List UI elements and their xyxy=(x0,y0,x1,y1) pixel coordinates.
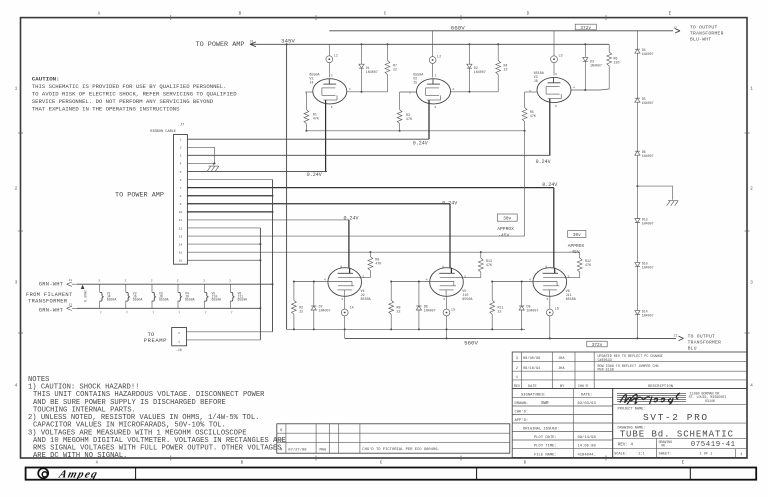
svg-text:11: 11 xyxy=(179,219,183,222)
diode D6 xyxy=(635,151,640,155)
svg-text:63146: 63146 xyxy=(705,399,715,403)
svg-text:1N4007: 1N4007 xyxy=(642,266,654,270)
svg-text:6550A: 6550A xyxy=(238,298,248,302)
svg-text:22: 22 xyxy=(393,67,397,71)
svg-text:J3: J3 xyxy=(250,39,254,43)
svg-text:9: 9 xyxy=(180,203,182,206)
tube V4 6550A xyxy=(328,268,362,297)
grid bus upper xyxy=(306,130,524,132)
choke L6 xyxy=(549,297,551,310)
svg-text:FROM FILAMENT: FROM FILAMENT xyxy=(26,292,73,298)
svg-text:4: 4 xyxy=(529,279,531,282)
svg-text:1N4007: 1N4007 xyxy=(590,64,602,68)
svg-text:08/18/94: 08/18/94 xyxy=(523,366,540,371)
svg-text:TO AVOID RISK OF ELECTRIC SHOC: TO AVOID RISK OF ELECTRIC SHOCK, REFER S… xyxy=(32,90,237,97)
svg-text:9: 9 xyxy=(545,265,547,268)
wire V2 cathode xyxy=(428,100,430,139)
wire row7 to V6 plate xyxy=(553,188,555,268)
arrow J1 to output transformer xyxy=(679,336,684,340)
svg-text:2: 2 xyxy=(229,280,231,283)
resistor R8 xyxy=(390,282,392,301)
svg-text:5: 5 xyxy=(180,171,182,174)
svg-text:22: 22 xyxy=(299,310,303,314)
title block revision table xyxy=(512,352,747,389)
svg-text:1N4007: 1N4007 xyxy=(319,309,331,313)
svg-text:372v: 372v xyxy=(592,343,603,348)
wire row13 to grid bus xyxy=(524,131,526,236)
svg-text:J4: J4 xyxy=(309,81,313,85)
svg-text:660V: 660V xyxy=(451,24,465,31)
svg-text:08/30/99: 08/30/99 xyxy=(523,356,540,361)
wire V2 screen xyxy=(450,91,498,93)
svg-text:47K: 47K xyxy=(585,263,591,267)
svg-text:J2: J2 xyxy=(69,303,73,306)
svg-text:2: 2 xyxy=(177,280,179,283)
bottom logo strip xyxy=(26,468,757,480)
svg-text:07/27/98: 07/27/98 xyxy=(288,447,307,452)
svg-text:10: 10 xyxy=(179,211,183,214)
resistor R9 xyxy=(369,252,371,256)
svg-text:6550A: 6550A xyxy=(212,298,222,302)
svg-text:1N4007: 1N4007 xyxy=(642,52,654,56)
svg-text:BLU: BLU xyxy=(688,346,697,352)
tube V2 6550A xyxy=(417,79,451,104)
tube V6 6550A xyxy=(533,268,567,297)
svg-text:6: 6 xyxy=(180,179,182,182)
diode D8 xyxy=(418,282,420,307)
tube V3 6550A xyxy=(537,77,571,102)
svg-text:08/14/98: 08/14/98 xyxy=(578,435,597,440)
wire row9 to V5 plate xyxy=(449,204,451,268)
svg-text:APPROX: APPROX xyxy=(497,226,514,232)
wire row 3 xyxy=(187,154,549,156)
wire row 16 xyxy=(187,259,260,261)
svg-text:THAT EXPLAINED IN THE OPERATIN: THAT EXPLAINED IN THE OPERATING INSTRUCT… xyxy=(32,105,180,112)
choke L3 xyxy=(553,31,555,56)
svg-text:SCALE:: SCALE: xyxy=(614,452,627,456)
diode D7 xyxy=(313,282,315,307)
svg-text:7: 7 xyxy=(231,312,233,315)
svg-text:6: 6 xyxy=(435,106,437,109)
wire V3 screen xyxy=(571,89,600,91)
wire V4 grid xyxy=(294,281,328,283)
svg-text:7: 7 xyxy=(100,312,102,315)
svg-text:SIGNATURES:: SIGNATURES: xyxy=(521,394,546,398)
wire row 12 xyxy=(187,227,260,229)
wire 345V rail / TO POWER AMP xyxy=(262,43,609,45)
svg-text:7: 7 xyxy=(205,312,207,315)
svg-text:J1: J1 xyxy=(674,333,678,337)
tube V1 6550A xyxy=(313,79,347,104)
svg-text:APPROX: APPROX xyxy=(568,243,585,249)
svg-text:345V: 345V xyxy=(281,38,295,45)
svg-text:L2: L2 xyxy=(437,56,441,60)
svg-text:3: 3 xyxy=(180,155,182,158)
svg-text:.J7: .J7 xyxy=(178,124,184,128)
svg-text:3: 3 xyxy=(435,75,437,78)
svg-text:0.24V: 0.24V xyxy=(307,172,322,178)
svg-text:1N4007: 1N4007 xyxy=(642,314,654,318)
svg-text:APP'D:: APP'D: xyxy=(515,418,529,423)
resistor R1 xyxy=(306,91,313,93)
svg-text:PREAMP: PREAMP xyxy=(144,337,167,344)
choke L1 xyxy=(328,44,330,56)
svg-text:8: 8 xyxy=(340,265,342,268)
svg-text:TRANSFORMER: TRANSFORMER xyxy=(690,30,724,36)
svg-text:3: 3 xyxy=(555,73,557,76)
resistor R5 xyxy=(525,91,538,93)
wire row 4 xyxy=(187,162,214,164)
wire row 11 xyxy=(187,219,349,221)
lower revision table xyxy=(277,424,510,453)
wire vert rows 6/8/10 to preamp xyxy=(272,180,274,332)
resistor R12 xyxy=(579,252,581,258)
diode D3 xyxy=(584,44,586,57)
heater V1 xyxy=(99,284,101,292)
svg-text:-45V: -45V xyxy=(498,233,509,239)
wire 345V drop xyxy=(286,44,288,329)
wire row 6 xyxy=(187,179,272,181)
diode D4 xyxy=(635,49,640,53)
wire V5 grid xyxy=(391,281,430,283)
wire V6 grid xyxy=(492,281,533,283)
wire 660V rail xyxy=(329,30,673,32)
svg-text:CAUTION:: CAUTION: xyxy=(32,75,60,82)
svg-text:TO POWER AMP: TO POWER AMP xyxy=(115,191,164,199)
svg-text:22: 22 xyxy=(504,67,508,71)
svg-text:PLOT TIME:: PLOT TIME: xyxy=(534,445,557,449)
wire filament bottom rail xyxy=(77,307,260,309)
resistor R3 xyxy=(400,91,417,93)
svg-text:THIS SCHEMATIC IS PROVIDED FOR: THIS SCHEMATIC IS PROVIDED FOR USE BY QU… xyxy=(32,83,227,90)
svg-text:30v: 30v xyxy=(573,233,581,238)
diode D10 xyxy=(635,263,640,267)
svg-text:0.24V: 0.24V xyxy=(344,216,359,222)
svg-text:1N4007: 1N4007 xyxy=(424,309,436,313)
svg-text:2: 2 xyxy=(125,280,127,283)
resistor R11 xyxy=(491,282,493,301)
svg-text:2: 2 xyxy=(180,147,182,150)
svg-text:J1: J1 xyxy=(69,279,73,282)
wire row 1 xyxy=(187,138,429,140)
svg-text:6550A: 6550A xyxy=(133,298,143,302)
svg-text:3: 3 xyxy=(341,298,343,301)
svg-text:DRAWN:: DRAWN: xyxy=(515,402,529,406)
Ampeg logo mark xyxy=(38,468,48,478)
svg-text:1N4007: 1N4007 xyxy=(366,70,378,74)
svg-text:C#E0533: C#E0533 xyxy=(598,359,612,363)
svg-text:4: 4 xyxy=(573,87,575,90)
svg-text:220: 220 xyxy=(614,61,620,65)
wire row 9 xyxy=(187,203,450,205)
heater V3 xyxy=(151,284,153,292)
svg-text:47K: 47K xyxy=(486,263,492,267)
svg-text:6550A: 6550A xyxy=(107,298,117,302)
svg-text:3: 3 xyxy=(546,298,548,301)
wire row 2 xyxy=(187,146,214,148)
svg-text:SWR: SWR xyxy=(541,402,549,406)
svg-text:PLOT DATE:: PLOT DATE: xyxy=(534,436,557,440)
svg-text:PER E158: PER E158 xyxy=(598,369,614,373)
svg-text:3: 3 xyxy=(516,357,518,361)
svg-text:8: 8 xyxy=(180,195,182,198)
svg-text:TRANSFORMER: TRANSFORMER xyxy=(28,298,68,304)
svg-text:7: 7 xyxy=(126,312,128,315)
svg-text:SERVICE PERSONNEL. DO NOT PER: SERVICE PERSONNEL. DO NOT PERFORM ANY SE… xyxy=(32,98,214,105)
resistor R6 xyxy=(608,44,610,52)
svg-text:NO.: NO. xyxy=(662,444,668,448)
svg-text:30v: 30v xyxy=(503,217,511,222)
wire rows 2-4 gnd loop xyxy=(214,147,216,163)
svg-text:JHA: JHA xyxy=(558,367,565,371)
svg-text:SHEET:: SHEET: xyxy=(659,452,672,456)
svg-text:14:05:00: 14:05:00 xyxy=(578,445,597,449)
svg-text:J5: J5 xyxy=(413,81,417,85)
svg-text:0.24V: 0.24V xyxy=(536,159,551,165)
svg-text:L3: L3 xyxy=(559,55,563,59)
node 30v approx -45V box 1 xyxy=(497,214,517,221)
choke L2 xyxy=(432,31,434,57)
svg-text:2: 2 xyxy=(516,367,518,371)
svg-text:4194044_: 4194044_ xyxy=(578,453,597,457)
heater V6 xyxy=(230,284,232,292)
svg-text:1: 1 xyxy=(180,139,182,142)
svg-text:TO OUTPUT: TO OUTPUT xyxy=(690,24,718,30)
svg-text:GRN-WHT: GRN-WHT xyxy=(39,308,64,314)
svg-text:0.24V: 0.24V xyxy=(442,200,457,206)
svg-text:2: 2 xyxy=(178,332,180,335)
svg-text:13: 13 xyxy=(179,235,183,238)
ground left xyxy=(207,166,219,171)
svg-text:1: 1 xyxy=(178,340,180,343)
svg-text:7: 7 xyxy=(180,187,182,190)
svg-text:1N4007: 1N4007 xyxy=(642,222,654,226)
svg-text:1N4007: 1N4007 xyxy=(642,154,654,158)
svg-text:TO OUTPUT: TO OUTPUT xyxy=(688,334,716,340)
svg-text:-45V: -45V xyxy=(569,249,580,255)
wire row 7 xyxy=(187,187,553,189)
resistor R7 xyxy=(387,44,389,60)
svg-text:4: 4 xyxy=(740,453,742,457)
svg-text:BLU-WHT: BLU-WHT xyxy=(690,36,711,42)
svg-text:L4: L4 xyxy=(350,307,354,311)
svg-text:4: 4 xyxy=(349,88,351,91)
polarity arrow xyxy=(81,285,85,289)
svg-text:TO POWER AMP: TO POWER AMP xyxy=(196,41,245,49)
wire row 14 xyxy=(187,243,260,245)
svg-text:3: 3 xyxy=(443,298,445,301)
Ampeg logo script xyxy=(57,469,100,481)
svg-text:CHG'D TO PICTORIAL PER ECO 980: CHG'D TO PICTORIAL PER ECO 980406. xyxy=(362,447,439,452)
svg-text:CHK'D:: CHK'D: xyxy=(515,410,529,415)
title block company/name area xyxy=(613,389,747,458)
svg-text:1N4007: 1N4007 xyxy=(642,101,654,105)
wire row 10 xyxy=(187,211,272,213)
svg-text:15: 15 xyxy=(179,251,183,254)
wire row11 to V4 plate xyxy=(348,220,350,268)
svg-text:TRANSFORMER: TRANSFORMER xyxy=(688,340,722,346)
title block signatures xyxy=(512,389,613,458)
svg-text:12: 12 xyxy=(179,227,183,230)
svg-text:2: 2 xyxy=(203,280,205,283)
wire V1 screen xyxy=(347,91,388,93)
svg-text:4: 4 xyxy=(180,163,182,166)
svg-text:L6: L6 xyxy=(555,308,559,312)
svg-text:J6: J6 xyxy=(534,80,538,84)
diode D2 xyxy=(468,44,470,64)
diode D1 xyxy=(361,44,363,64)
svg-text:DATE:: DATE: xyxy=(581,394,592,398)
svg-text:2: 2 xyxy=(99,280,101,283)
choke L5 xyxy=(446,297,448,310)
svg-text:GRN-WHT: GRN-WHT xyxy=(39,282,64,288)
svg-text:REV: 4: REV: 4 xyxy=(618,443,634,447)
heater V2 xyxy=(125,284,127,292)
svg-text:6550A: 6550A xyxy=(185,298,195,302)
node 372v box bottom xyxy=(587,341,607,347)
svg-text:ORIGINAL ISSUED:: ORIGINAL ISSUED: xyxy=(523,428,559,432)
wire gnd branch xyxy=(637,185,672,187)
choke L4 xyxy=(344,297,346,310)
svg-text:075419-41: 075419-41 xyxy=(691,441,736,449)
svg-text:FILE NAME:: FILE NAME: xyxy=(534,453,557,457)
svg-text:5: 5 xyxy=(529,90,531,93)
svg-text:6550A: 6550A xyxy=(566,298,577,302)
svg-text:5: 5 xyxy=(568,275,570,278)
resistor R13 xyxy=(480,252,482,258)
svg-text:1:1: 1:1 xyxy=(638,452,644,456)
wire row 5 xyxy=(187,170,327,172)
wire row 15 xyxy=(187,251,579,253)
svg-text:3: 3 xyxy=(331,75,333,78)
svg-text:7: 7 xyxy=(152,312,154,315)
svg-text:0.24V: 0.24V xyxy=(413,140,428,146)
svg-text:5: 5 xyxy=(363,275,365,278)
wire V1 cathode xyxy=(325,100,327,172)
svg-text:7: 7 xyxy=(178,312,180,315)
svg-text:SVT-2 PRO: SVT-2 PRO xyxy=(643,412,709,423)
diode D9 xyxy=(521,282,523,307)
svg-text:JHA: JHA xyxy=(558,357,565,361)
diode D13 xyxy=(635,219,640,223)
tube V5 6550A xyxy=(430,268,464,297)
svg-text:1: 1 xyxy=(516,376,518,380)
wire vert rows 12/14/16 to preamp xyxy=(259,228,261,340)
wire row 13 xyxy=(187,235,524,237)
resistor R2 xyxy=(293,282,295,301)
heater V4 xyxy=(177,284,179,292)
wire row 8 xyxy=(187,195,272,197)
resistor R4 xyxy=(497,44,499,60)
svg-text:5: 5 xyxy=(464,275,466,278)
svg-text:22: 22 xyxy=(498,310,502,314)
wire column xyxy=(636,31,638,49)
ground right xyxy=(667,201,679,206)
svg-text:22: 22 xyxy=(397,310,401,314)
bias bus lower xyxy=(287,328,525,330)
svg-text:16: 16 xyxy=(179,260,183,263)
svg-text:03/03/93: 03/03/93 xyxy=(578,401,597,406)
svg-text:6550A: 6550A xyxy=(159,298,169,302)
svg-text:.J8: .J8 xyxy=(176,349,182,353)
svg-text:1N4007: 1N4007 xyxy=(527,309,539,313)
svg-text:MAG: MAG xyxy=(320,448,328,452)
svg-text:14: 14 xyxy=(179,243,183,246)
svg-text:L1: L1 xyxy=(334,55,338,59)
svg-text:2: 2 xyxy=(151,280,153,283)
wire 560V rail xyxy=(345,337,676,339)
svg-text:J2: J2 xyxy=(673,26,677,30)
node 372v box top xyxy=(575,24,596,30)
svg-text:560V: 560V xyxy=(464,340,478,347)
svg-text:6550A: 6550A xyxy=(361,298,372,302)
svg-text:372v: 372v xyxy=(580,26,591,31)
svg-text:47K: 47K xyxy=(375,262,381,266)
heater V5 xyxy=(204,284,206,292)
node 30v approx -45V box 2 xyxy=(568,231,586,238)
diode D14 xyxy=(635,311,640,315)
svg-text:1 OF 1: 1 OF 1 xyxy=(700,452,713,456)
diode D5 xyxy=(635,98,640,102)
svg-text:4: 4 xyxy=(426,279,428,282)
wire filament top rail xyxy=(77,283,273,285)
svg-text:47K: 47K xyxy=(530,114,536,118)
wire V3 cathode xyxy=(549,99,551,156)
company signature script xyxy=(620,393,680,405)
svg-text:6: 6 xyxy=(555,105,557,108)
svg-text:47K: 47K xyxy=(313,117,319,121)
svg-text:1N4007: 1N4007 xyxy=(474,70,486,74)
svg-text:RIBBON CABLE: RIBBON CABLE xyxy=(150,130,176,134)
svg-text:47K: 47K xyxy=(406,117,412,121)
arrow J2 to output transformer xyxy=(675,29,680,33)
svg-text:6.3VAC: 6.3VAC xyxy=(85,290,89,302)
svg-text:PROJECT NAME:: PROJECT NAME: xyxy=(618,408,646,412)
svg-text:0.24V: 0.24V xyxy=(542,182,557,188)
svg-text:6: 6 xyxy=(331,106,333,109)
svg-text:Ampeg: Ampeg xyxy=(57,469,100,481)
svg-text:6550A: 6550A xyxy=(462,298,473,302)
svg-text:4: 4 xyxy=(453,88,455,91)
svg-text:4: 4 xyxy=(324,279,326,282)
svg-text:L5: L5 xyxy=(451,309,455,313)
svg-text:8: 8 xyxy=(442,265,444,268)
svg-text:ARE DC WITH NO SIGNAL.: ARE DC WITH NO SIGNAL. xyxy=(33,452,127,460)
